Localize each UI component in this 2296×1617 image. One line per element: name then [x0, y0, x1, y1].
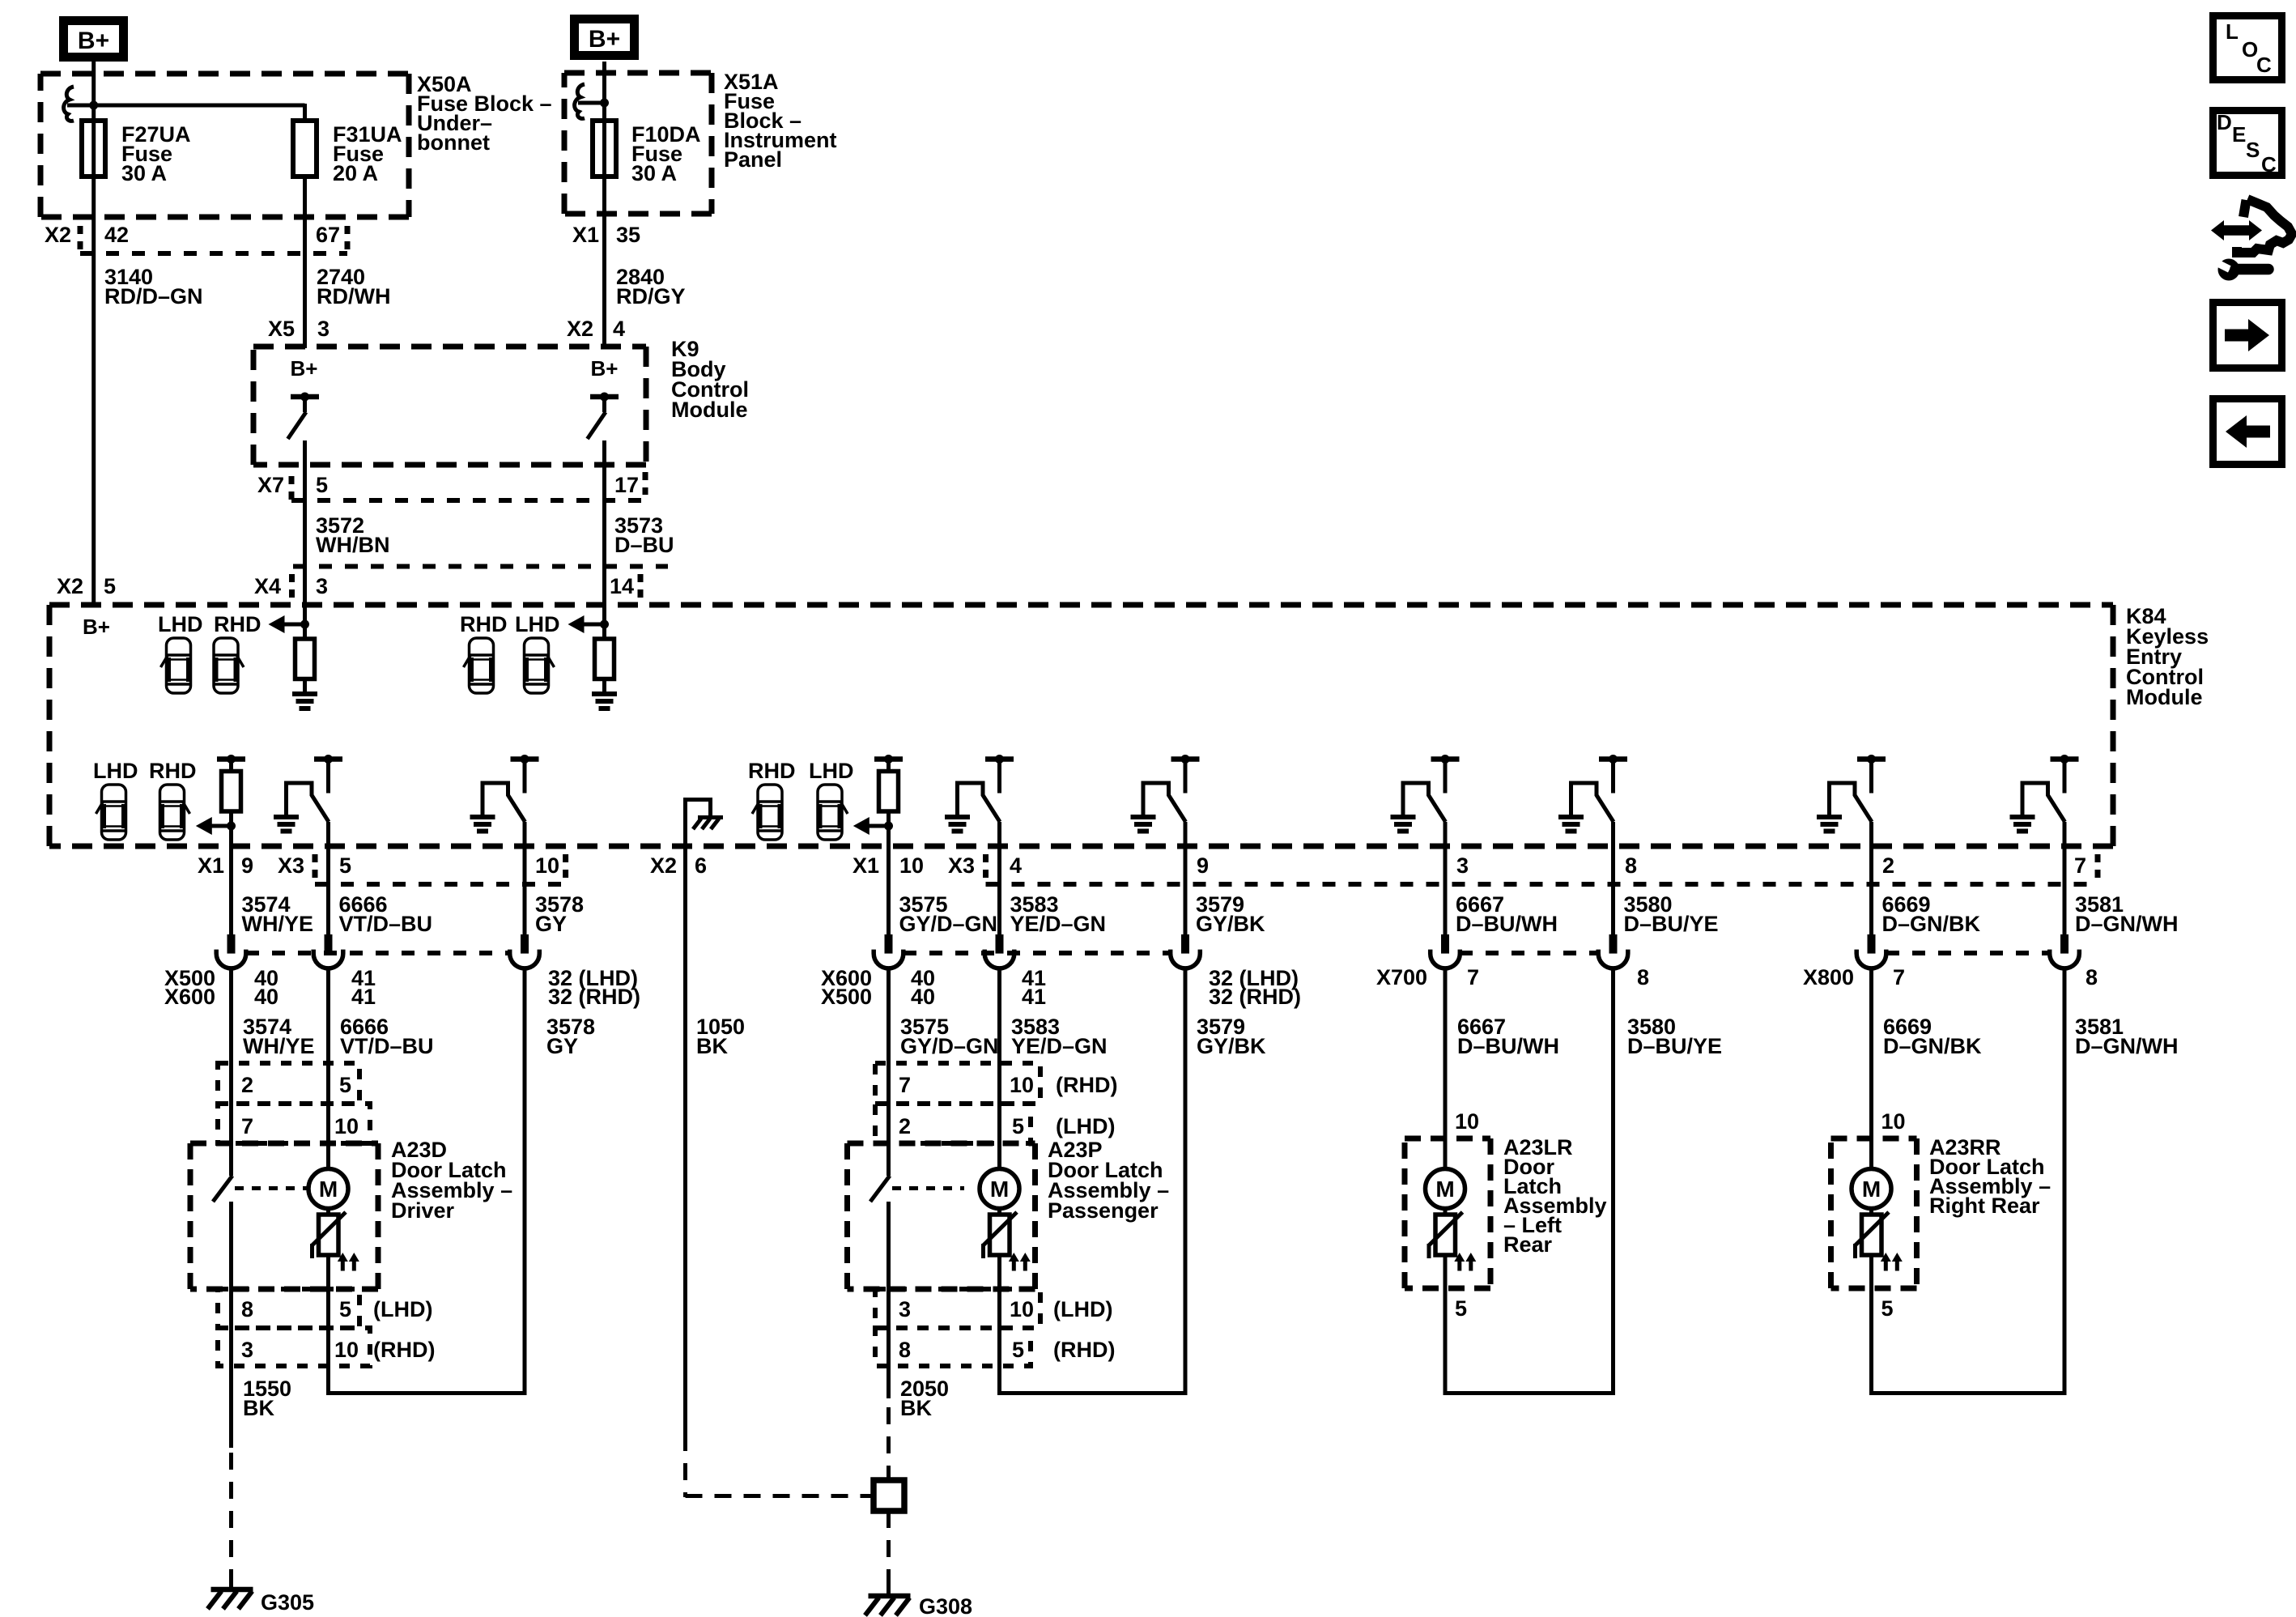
wire 6667 to bus: [1444, 1255, 1448, 1395]
svg-text:RD/D–GN: RD/D–GN: [104, 284, 203, 309]
motor return bus (left rear): [1444, 1391, 1616, 1395]
car icon RHD: [214, 638, 238, 693]
pin box dotted line X7 row: [291, 498, 652, 503]
svg-text:5: 5: [104, 574, 116, 598]
fuse F31UA 20 A: [293, 121, 317, 177]
svg-text:10: 10: [334, 1338, 359, 1362]
svg-text:3: 3: [316, 574, 328, 598]
svg-text:5: 5: [339, 1073, 351, 1097]
inline connector on wire 3579: [1181, 934, 1189, 954]
wire 3573: [602, 502, 606, 624]
door ajar switch (driver): [213, 1176, 232, 1202]
car icon RHD (bottom right): [758, 785, 782, 840]
svg-text:Driver: Driver: [391, 1198, 455, 1223]
splice curl X51A: [575, 84, 585, 118]
car icon LHD: [167, 638, 191, 693]
wire 3579 lower run: [1184, 968, 1188, 1395]
svg-text:X500: X500: [821, 985, 872, 1009]
svg-text:35: 35: [616, 223, 640, 247]
icon DESC box: [2213, 111, 2282, 176]
wire 6666 lower run: [326, 968, 330, 1168]
svg-text:L: L: [2226, 19, 2239, 44]
svg-text:RHD: RHD: [748, 759, 796, 783]
wire 3578 upper run: [523, 846, 527, 934]
svg-text:YE/D–GN: YE/D–GN: [1010, 912, 1107, 936]
wire 3583 upper run: [997, 846, 1001, 934]
motor M + PTC (driver): [308, 1169, 348, 1209]
svg-text:LHD: LHD: [515, 612, 560, 636]
svg-text:7: 7: [899, 1073, 911, 1097]
svg-text:Module: Module: [671, 398, 748, 422]
svg-text:4: 4: [1010, 853, 1022, 878]
svg-text:2: 2: [241, 1073, 253, 1097]
battery terminal B+ (right): [575, 19, 635, 56]
svg-text:D–BU/YE: D–BU/YE: [1624, 912, 1719, 936]
svg-text:X800: X800: [1803, 965, 1854, 989]
svg-text:D–GN/BK: D–GN/BK: [1883, 1034, 1982, 1058]
arrow + resistor + ground (3573 termination): [602, 605, 606, 639]
svg-text:41: 41: [1022, 985, 1046, 1009]
pin box 3/10 (passenger lower): [875, 1289, 1040, 1328]
svg-text:Rear: Rear: [1503, 1232, 1553, 1257]
svg-text:X2: X2: [567, 317, 593, 341]
svg-text:Passenger: Passenger: [1048, 1198, 1159, 1223]
svg-text:3: 3: [241, 1338, 253, 1362]
wire 6669 upper run: [1869, 846, 1873, 934]
module K9 dashed outline: [253, 344, 646, 350]
icon right-arrow box: [2213, 303, 2282, 368]
svg-text:5: 5: [316, 473, 328, 497]
svg-text:D–BU/WH: D–BU/WH: [1456, 912, 1558, 936]
svg-text:32 (RHD): 32 (RHD): [548, 985, 640, 1009]
motor return bus (passenger): [997, 1391, 1188, 1395]
fuse block X51A dashed outline: [564, 70, 712, 76]
car icon LHD (bottom right): [818, 785, 842, 840]
switch to ground (wire 3579): [1171, 756, 1200, 762]
svg-text:D–BU/WH: D–BU/WH: [1457, 1034, 1559, 1058]
svg-text:VT/D–BU: VT/D–BU: [339, 912, 433, 936]
svg-text:Module: Module: [2126, 685, 2203, 709]
module A23RR dashed outline: [1831, 1136, 1917, 1142]
svg-text:10: 10: [334, 1114, 359, 1138]
svg-text:2: 2: [899, 1114, 911, 1138]
svg-text:D: D: [2217, 110, 2232, 134]
motor M + PTC (right rear): [1852, 1169, 1891, 1209]
svg-text:LHD: LHD: [93, 759, 138, 783]
wire 6666 to bus: [326, 1255, 330, 1395]
svg-text:S: S: [2246, 138, 2260, 162]
inline connector on wire 3574: [227, 934, 236, 954]
svg-text:RD/WH: RD/WH: [317, 284, 390, 309]
car icon LHD (bottom): [102, 785, 126, 840]
exit pin dotted line (right span): [986, 882, 2098, 887]
svg-text:RD/GY: RD/GY: [616, 284, 686, 309]
module A23P dashed outline: [848, 1141, 1035, 1147]
svg-text:5: 5: [1455, 1296, 1467, 1321]
wire 3574 through lower boxes: [229, 1202, 233, 1448]
svg-text:WH/YE: WH/YE: [242, 912, 314, 936]
car icon RHD (bottom): [160, 785, 185, 840]
svg-text:GY: GY: [546, 1034, 578, 1058]
fuse F27UA 30 A: [82, 121, 105, 177]
svg-text:B+: B+: [589, 26, 620, 53]
svg-text:7: 7: [1893, 965, 1905, 989]
svg-text:5: 5: [1881, 1296, 1894, 1321]
motor return bus (driver): [326, 1391, 527, 1395]
svg-text:2: 2: [1882, 853, 1894, 878]
wire: jumper to F31UA: [67, 104, 305, 108]
svg-text:RHD: RHD: [214, 612, 261, 636]
svg-text:30 A: 30 A: [631, 161, 677, 185]
svg-text:3: 3: [317, 317, 330, 341]
inline connector on wire 3580: [1609, 934, 1618, 954]
wire 3575 through lower boxes: [887, 1202, 891, 1398]
svg-text:(LHD): (LHD): [373, 1297, 432, 1321]
svg-text:B+: B+: [78, 28, 109, 54]
svg-text:X2: X2: [57, 574, 83, 598]
svg-text:WH/BN: WH/BN: [316, 533, 389, 557]
svg-text:YE/D–GN: YE/D–GN: [1011, 1034, 1108, 1058]
inline connector on wire 3583: [996, 934, 1004, 954]
inline connector on wire 3575: [885, 934, 893, 954]
relay switch in K9 at x=746.5: [590, 394, 619, 400]
junction node: [600, 99, 609, 108]
wire 3579 upper run: [1184, 846, 1188, 934]
pin box 7/10 (passenger upper): [875, 1063, 1040, 1104]
wire 3575 lower run: [887, 968, 891, 1176]
resistor + arrow (wire 3574): [217, 756, 245, 762]
fuse block X50A dashed outline: [40, 71, 409, 77]
mechanical link (passenger): [892, 1186, 964, 1190]
wire 3580 lower run: [1611, 968, 1615, 1395]
wire 6669 lower run: [1869, 968, 1873, 1168]
svg-text:67: 67: [316, 223, 340, 247]
svg-text:GY: GY: [535, 912, 567, 936]
dashed wire to G308: [887, 1511, 891, 1581]
svg-text:7: 7: [1467, 965, 1479, 989]
switch to ground (wire 3583): [985, 756, 1014, 762]
svg-text:M: M: [990, 1177, 1009, 1202]
inline connector on wire 3581: [2060, 934, 2069, 954]
wire 6667 upper run: [1444, 846, 1448, 934]
svg-text:GY/D–GN: GY/D–GN: [900, 1034, 999, 1058]
svg-text:X1: X1: [852, 853, 879, 878]
exit pin dotted line (left span): [315, 882, 566, 887]
svg-text:9: 9: [1197, 853, 1209, 878]
svg-text:X2: X2: [650, 853, 677, 878]
svg-text:RHD: RHD: [460, 612, 508, 636]
svg-text:8: 8: [899, 1338, 911, 1362]
svg-text:D–BU: D–BU: [614, 533, 674, 557]
svg-text:X600: X600: [164, 985, 215, 1009]
svg-text:BK: BK: [900, 1396, 932, 1420]
svg-text:42: 42: [104, 223, 129, 247]
connector dashed tie (X800): [1886, 951, 2050, 955]
svg-text:X3: X3: [278, 853, 304, 878]
svg-text:8: 8: [1637, 965, 1649, 989]
door ajar switch (passenger): [870, 1176, 890, 1202]
svg-text:10: 10: [1881, 1109, 1906, 1134]
svg-text:B+: B+: [591, 356, 619, 381]
svg-text:32 (RHD): 32 (RHD): [1209, 985, 1301, 1009]
wire 1550 dashed to ground: [229, 1453, 233, 1581]
connector dashed tie (passenger group): [904, 951, 1171, 955]
svg-text:LHD: LHD: [158, 612, 203, 636]
relay switch in K9 at x=376.5: [291, 394, 319, 400]
svg-text:M: M: [1435, 1177, 1454, 1202]
module A23LR dashed outline: [1405, 1136, 1490, 1142]
svg-text:(RHD): (RHD): [1053, 1338, 1115, 1362]
svg-text:(RHD): (RHD): [373, 1338, 435, 1362]
svg-text:X4: X4: [254, 574, 281, 598]
pin box 2/5 (driver upper): [218, 1063, 359, 1104]
car icon LHD (right group): [525, 638, 549, 693]
connector dashed tie (driver group): [246, 951, 510, 955]
svg-text:WH/YE: WH/YE: [243, 1034, 315, 1058]
icon left-arrow box: [2213, 399, 2282, 465]
svg-text:B+: B+: [83, 615, 110, 639]
svg-text:Right Rear: Right Rear: [1929, 1194, 2040, 1218]
svg-text:X700: X700: [1376, 965, 1427, 989]
arrow + resistor + ground (3572 termination): [303, 605, 307, 639]
inline connector on wire 6666: [325, 934, 333, 954]
svg-text:20 A: 20 A: [333, 161, 378, 185]
pin box 3/10 (driver lower): [218, 1328, 370, 1366]
svg-text:C: C: [2256, 53, 2272, 77]
pin box 2/5 (passenger upper): [875, 1104, 1031, 1143]
svg-text:X5: X5: [268, 317, 295, 341]
inline connector on wire 3578: [521, 934, 529, 954]
wire 2050 dashed to splice: [887, 1407, 891, 1480]
switch to ground (wire 3578): [511, 756, 539, 762]
internal ground (pin X2 6): [686, 800, 711, 847]
wire 1050 dashed elbow: [683, 1434, 687, 1497]
svg-text:B+: B+: [291, 356, 318, 381]
svg-text:M: M: [1862, 1177, 1881, 1202]
svg-text:D–GN/BK: D–GN/BK: [1882, 912, 1981, 936]
switch to ground (wire 3580): [1599, 756, 1627, 762]
svg-text:RHD: RHD: [149, 759, 197, 783]
svg-text:BK: BK: [243, 1396, 274, 1420]
icon LOC box: [2213, 16, 2282, 80]
wire 3575 upper run: [887, 846, 891, 934]
wire 3581 upper run: [2063, 846, 2067, 934]
entry pin dotted line X4 row: [293, 564, 668, 569]
splice S-box: [874, 1480, 904, 1511]
wire 1050 run: [683, 846, 687, 1434]
svg-text:40: 40: [911, 985, 935, 1009]
wire 6666 upper run: [326, 846, 330, 934]
switch to ground (wire 3581): [2051, 756, 2079, 762]
svg-text:X3: X3: [948, 853, 975, 878]
svg-text:10: 10: [535, 853, 559, 878]
svg-text:10: 10: [1010, 1297, 1034, 1321]
svg-text:41: 41: [351, 985, 376, 1009]
svg-text:BK: BK: [696, 1034, 728, 1058]
svg-text:9: 9: [241, 853, 253, 878]
svg-text:GY/BK: GY/BK: [1197, 1034, 1266, 1058]
pin box 7/10 (driver upper): [218, 1104, 370, 1143]
motor M + PTC (passenger): [980, 1169, 1019, 1209]
svg-text:5: 5: [1012, 1338, 1024, 1362]
svg-text:M: M: [319, 1177, 338, 1202]
motor M + PTC (left rear): [1426, 1169, 1465, 1209]
pin box 8/5 (passenger lower): [875, 1328, 1031, 1366]
module A23D dashed outline: [190, 1141, 378, 1147]
svg-text:X1: X1: [572, 223, 599, 247]
switch to ground (wire 6667): [1431, 756, 1460, 762]
svg-text:D–GN/WH: D–GN/WH: [2075, 1034, 2179, 1058]
svg-text:5: 5: [1012, 1114, 1024, 1138]
svg-text:10: 10: [1010, 1073, 1034, 1097]
svg-text:4: 4: [613, 317, 625, 341]
svg-text:X2: X2: [45, 223, 71, 247]
ground G308: [887, 1581, 891, 1595]
wire 6669 to bus: [1869, 1255, 1873, 1395]
wire 3574 lower run: [229, 968, 233, 1176]
svg-text:D–GN/WH: D–GN/WH: [2075, 912, 2179, 936]
resistor + arrow (wire 3575): [874, 756, 903, 762]
wire 3581 lower run: [2063, 968, 2067, 1395]
svg-text:8: 8: [241, 1297, 253, 1321]
svg-text:VT/D–BU: VT/D–BU: [340, 1034, 434, 1058]
motor return bus (right rear): [1869, 1391, 2067, 1395]
svg-text:17: 17: [614, 473, 639, 497]
svg-text:bonnet: bonnet: [417, 130, 490, 155]
svg-text:6: 6: [695, 853, 707, 878]
battery terminal B+ (left): [64, 21, 124, 57]
svg-text:40: 40: [254, 985, 278, 1009]
svg-text:10: 10: [1455, 1109, 1479, 1134]
wire 3583 lower run: [997, 968, 1001, 1168]
svg-text:3: 3: [1456, 853, 1469, 878]
wire 3580 upper run: [1611, 846, 1615, 934]
svg-text:X1: X1: [198, 853, 224, 878]
inline connector on wire 6667: [1441, 934, 1449, 954]
svg-text:3: 3: [899, 1297, 911, 1321]
svg-text:14: 14: [610, 574, 634, 598]
wire 6667 lower run: [1444, 968, 1448, 1168]
svg-text:5: 5: [339, 853, 351, 878]
svg-text:D–BU/YE: D–BU/YE: [1627, 1034, 1722, 1058]
svg-text:X7: X7: [257, 473, 284, 497]
pin box dotted line X2 row: [80, 251, 347, 256]
svg-text:E: E: [2232, 122, 2246, 147]
svg-text:7: 7: [2074, 853, 2086, 878]
ground G305: [229, 1581, 233, 1589]
mechanical link (driver): [235, 1186, 307, 1190]
svg-text:(LHD): (LHD): [1056, 1114, 1115, 1138]
fuse F10DA 30 A: [593, 121, 616, 177]
svg-text:(LHD): (LHD): [1053, 1297, 1112, 1321]
wire below F31UA: [303, 177, 307, 348]
svg-text:GY/D–GN: GY/D–GN: [899, 912, 998, 936]
switch to ground (wire 6669): [1857, 756, 1886, 762]
wire 3583 to bus: [997, 1255, 1001, 1395]
module K84 dashed outline: [49, 602, 2113, 608]
wire: B+ left feed: [91, 62, 96, 605]
wire 3578 lower run: [523, 968, 527, 1395]
icon car with double arrow and wrench: [2211, 199, 2292, 281]
wire: B+ right feed: [602, 62, 606, 348]
svg-text:(RHD): (RHD): [1056, 1073, 1117, 1097]
svg-text:8: 8: [2086, 965, 2098, 989]
inline connector on wire 6669: [1868, 934, 1876, 954]
svg-text:C: C: [2261, 152, 2277, 177]
svg-text:G308: G308: [919, 1594, 972, 1617]
svg-text:10: 10: [899, 853, 924, 878]
car icon RHD (right group): [470, 638, 494, 693]
svg-text:LHD: LHD: [809, 759, 854, 783]
connector dashed tie (X700): [1460, 951, 1598, 955]
pin box 8/5 (driver lower): [218, 1289, 359, 1328]
svg-text:GY/BK: GY/BK: [1196, 912, 1265, 936]
svg-text:Panel: Panel: [724, 147, 782, 172]
switch to ground (wire 6666): [314, 756, 342, 762]
svg-text:5: 5: [339, 1297, 351, 1321]
svg-text:30 A: 30 A: [121, 161, 167, 185]
svg-text:G305: G305: [261, 1590, 314, 1615]
svg-text:7: 7: [241, 1114, 253, 1138]
svg-text:8: 8: [1625, 853, 1637, 878]
junction node: [89, 101, 98, 110]
wire 3574 upper run: [229, 846, 233, 934]
splice curl X50A: [64, 87, 74, 121]
wire 3572: [303, 502, 307, 624]
